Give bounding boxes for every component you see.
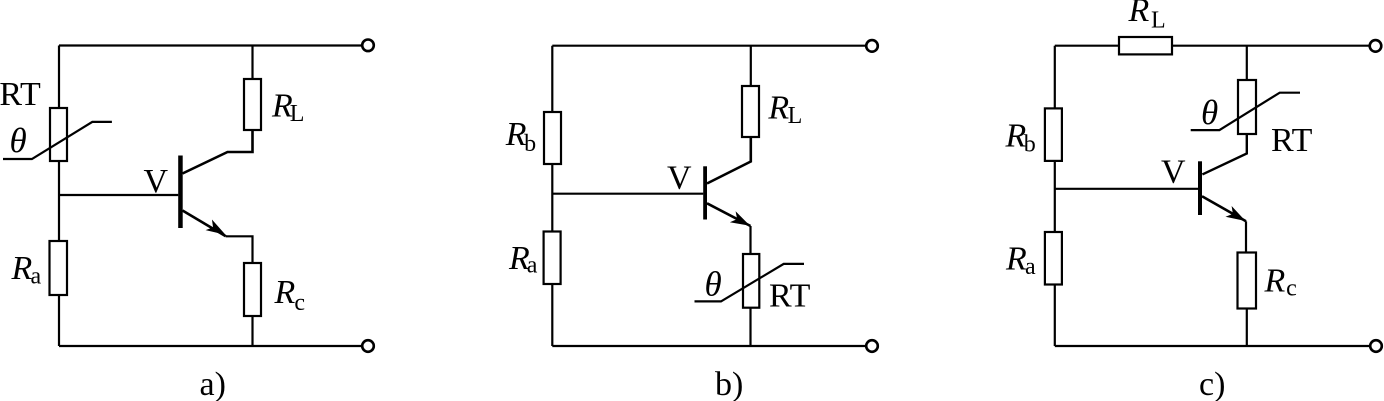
transistor V (b) base bar xyxy=(703,166,707,219)
resistor Rc (a) body xyxy=(244,263,261,316)
wire: a base wire xyxy=(59,194,178,196)
svg-text:V: V xyxy=(144,163,169,200)
wire: c top rail to RT xyxy=(1246,46,1248,80)
transistor V (a) emitter arrow xyxy=(206,220,226,235)
svg-text:θ: θ xyxy=(705,265,722,304)
svg-text:V: V xyxy=(667,159,692,196)
resistor Ra (c) body xyxy=(1045,232,1062,285)
svg-text:V: V xyxy=(1161,153,1186,190)
transistor V (c) emitter arrow xyxy=(1225,206,1245,221)
transistor V (c) emitter diagonal xyxy=(1202,196,1246,221)
wire: a Rc to bottom rail xyxy=(251,316,253,346)
wire: c base wire xyxy=(1055,188,1198,190)
resistor RL (b) body xyxy=(742,86,759,137)
wire: b RL to top rail xyxy=(750,46,752,86)
wire: a bottom rail xyxy=(59,345,362,347)
svg-text:RT: RT xyxy=(0,76,41,113)
svg-text:c): c) xyxy=(1199,366,1225,401)
resistor Ra (a) body xyxy=(50,241,68,295)
resistor RL (c) body xyxy=(1119,37,1172,54)
wire: b RT to bottom rail xyxy=(749,308,751,346)
thermistor RT (c) body xyxy=(1238,80,1256,134)
wire: c left vertical xyxy=(1054,46,1056,346)
svg-text:RT: RT xyxy=(769,277,811,314)
wire: c Rc to bottom rail xyxy=(1246,309,1248,347)
resistor Rb (b) body xyxy=(544,112,561,164)
thermistor RT (a) body xyxy=(50,108,67,161)
terminal: a bottom output xyxy=(362,340,374,352)
resistor RL (a) body xyxy=(244,79,261,130)
transistor V (a) base bar xyxy=(178,156,183,229)
wire: c bottom rail xyxy=(1055,345,1370,347)
transistor V (b) emitter diagonal xyxy=(707,203,751,226)
wire: b base wire xyxy=(552,193,703,195)
wire: b emitter to RT xyxy=(749,226,751,253)
transistor V (b) collector path to RL xyxy=(707,137,751,184)
resistor Ra (b) body xyxy=(544,232,561,285)
wire: b bottom rail xyxy=(552,345,865,347)
wire: c top rail left of RL xyxy=(1055,45,1119,47)
wire: a RL to top rail xyxy=(251,46,253,80)
transistor V (a) emitter diagonal xyxy=(183,211,226,237)
wire: b top rail xyxy=(552,45,865,47)
thermistor RT (b) strike line xyxy=(695,264,805,302)
terminal: a top output xyxy=(362,40,374,52)
resistor Rc (c) body xyxy=(1238,253,1257,309)
svg-text:RT: RT xyxy=(1271,122,1313,159)
transistor V (b) emitter arrow xyxy=(730,211,750,226)
wire: a top rail xyxy=(59,44,362,46)
transistor V (c) collector path from RT xyxy=(1202,134,1246,174)
transistor V (a) collector path to RL xyxy=(183,130,253,174)
terminal: c bottom output xyxy=(1370,340,1382,352)
resistor Rb (c) body xyxy=(1045,108,1062,160)
transistor V (c) base bar xyxy=(1198,161,1202,215)
svg-text:θ: θ xyxy=(10,121,27,160)
svg-text:b): b) xyxy=(715,366,743,401)
svg-text:a): a) xyxy=(200,366,226,401)
terminal: b top output xyxy=(866,40,878,52)
wire: b left vertical xyxy=(551,46,553,346)
thermistor RT (b) body xyxy=(743,254,759,308)
thermistor RT (a) strike line xyxy=(3,122,112,159)
wire: c emitter to Rc xyxy=(1245,221,1247,252)
wire: c top rail right of RL xyxy=(1172,45,1369,47)
thermistor RT (c) strike line xyxy=(1191,93,1300,130)
terminal: c top output xyxy=(1370,40,1382,52)
terminal: b bottom output xyxy=(866,340,878,352)
wire: a left vertical xyxy=(58,46,60,347)
wire: a emitter to Rc xyxy=(226,236,253,263)
svg-text:θ: θ xyxy=(1201,93,1218,132)
